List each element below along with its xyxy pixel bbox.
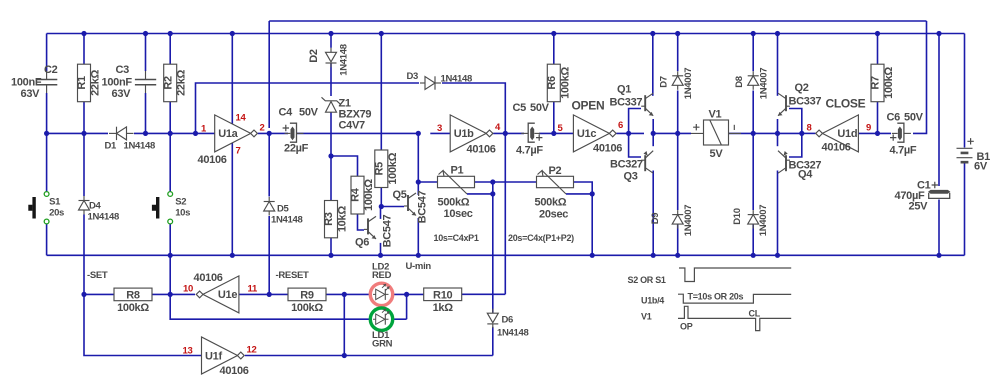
wire node to R4 top (331, 156, 358, 176)
wire to Q1 base (629, 109, 641, 134)
wire S1 top lead (46, 133, 48, 191)
svg-text:C5: C5 (513, 102, 527, 114)
wire U1a out down to D5 (268, 133, 270, 196)
svg-text:U-min: U-min (406, 261, 432, 272)
svg-text:U1c: U1c (577, 128, 596, 140)
svg-text:10s=C4xP1: 10s=C4xP1 (434, 233, 479, 243)
svg-text:R9: R9 (300, 290, 314, 302)
resistor R1 (78, 64, 91, 102)
wire to U1b input (430, 132, 450, 134)
svg-text:500kΩ: 500kΩ (535, 197, 567, 209)
wire D1 to U1a pin1 (134, 132, 215, 134)
wire +6V supply rail (47, 33, 965, 35)
svg-text:R8: R8 (126, 290, 140, 302)
wire R1 bottom lead (83, 102, 85, 133)
resistor R10 (424, 288, 462, 301)
svg-text:U1a: U1a (218, 128, 238, 140)
wire node to P1 left (418, 181, 437, 183)
svg-text:1N4148: 1N4148 (497, 328, 528, 339)
wire Q6 collector up (380, 207, 382, 219)
svg-text:R10: R10 (433, 290, 452, 302)
svg-text:U1b/4: U1b/4 (641, 296, 664, 306)
svg-text:OPEN: OPEN (572, 99, 605, 113)
wire Q3 emitter from V1 left node (652, 133, 654, 146)
svg-text:-SET: -SET (87, 270, 108, 281)
svg-text:P1: P1 (451, 165, 464, 177)
wire Q6 emitter to 0V (380, 243, 382, 255)
svg-text:22kΩ: 22kΩ (176, 69, 188, 95)
wire LED cathode link (406, 294, 408, 319)
svg-text:10sec: 10sec (444, 208, 473, 220)
op-amp U1c (40106 inverter) (573, 115, 609, 152)
wire C4 to U1b input (297, 132, 418, 134)
svg-text:V1: V1 (641, 312, 652, 322)
transistor Q1 BC337 (641, 105, 645, 107)
wire R2 top lead (169, 34, 171, 65)
wire Q3 collector to 0V rail (652, 171, 654, 256)
wire Q1 collector to +6V (652, 34, 654, 96)
svg-text:10s: 10s (175, 208, 190, 219)
wire -SET node down to U1f input (84, 294, 202, 355)
wire +6V to D8 (752, 34, 754, 72)
svg-text:12: 12 (247, 345, 257, 356)
svg-text:S1: S1 (49, 197, 61, 208)
diode D10 (748, 214, 759, 216)
svg-text:100kΩ: 100kΩ (117, 302, 149, 314)
svg-text:50V: 50V (904, 112, 924, 124)
LED LD1 green (370, 308, 392, 330)
wire U1a output to C4 (258, 132, 288, 134)
wire top feedback rail (U1a out to C6 right) (269, 20, 926, 22)
wire D4 to -SET node (83, 215, 85, 295)
capacitor C2 (36, 80, 57, 85)
svg-text:1N4148: 1N4148 (88, 212, 119, 223)
capacitor C5 (531, 127, 534, 139)
svg-text:R2: R2 (162, 76, 174, 90)
wire D8 to V1 right node (752, 91, 754, 134)
wire 0V / U-min bottom rail (47, 254, 965, 256)
wire D10 to 0V rail (752, 224, 754, 255)
wire Q2 collector to +6V (777, 34, 779, 96)
wire -SET node to R8 (84, 293, 114, 295)
wire Q4 emitter (777, 133, 779, 146)
diode D5 (264, 201, 275, 203)
capacitor C1 (470uF) (929, 190, 950, 193)
svg-text:R1: R1 (76, 76, 88, 90)
wire U1d output (802, 132, 816, 134)
svg-text:13: 13 (183, 346, 193, 357)
wire R6 bottom lead (553, 102, 555, 133)
wire Q4 collector to 0V rail (777, 171, 779, 256)
transistor Q4 BC327 (786, 159, 790, 161)
wire R9 node down to U1f output wire (343, 294, 345, 355)
svg-text:D10: D10 (732, 208, 743, 225)
svg-text:11: 11 (248, 284, 258, 295)
svg-text:D5: D5 (277, 204, 290, 215)
wire C2 top lead (46, 34, 48, 72)
op-amp U1b (40106 inverter) (450, 115, 486, 152)
wire R7 bottom lead (877, 102, 879, 133)
svg-text:10kΩ: 10kΩ (337, 206, 349, 232)
svg-text:22µF: 22µF (284, 143, 309, 155)
svg-text:Q6: Q6 (355, 237, 369, 249)
wire to Q2 base (789, 109, 802, 134)
svg-text:4.7µF: 4.7µF (890, 145, 917, 157)
svg-text:100kΩ: 100kΩ (559, 67, 571, 99)
svg-text:U1f: U1f (205, 350, 222, 362)
wire U1b output to C5 (493, 132, 524, 134)
svg-text:R5: R5 (374, 162, 386, 176)
svg-text:1N4007: 1N4007 (683, 68, 694, 99)
wire feedback left drop to U1a output node (268, 21, 270, 128)
wire U1e input from U1a output (239, 293, 269, 295)
switch S2 (168, 192, 173, 197)
wire U1d input from R7/C6 node (858, 132, 891, 134)
diode D6 (487, 313, 498, 323)
wire C2 bottom lead (46, 93, 48, 133)
wire S1 bottom lead (46, 224, 48, 255)
svg-text:40106: 40106 (467, 144, 496, 156)
wire R7 top lead (877, 34, 879, 65)
svg-text:D7: D7 (659, 76, 670, 88)
wire LD1 right (393, 318, 407, 320)
svg-text:U1b: U1b (454, 128, 474, 140)
resistor R7 (871, 64, 884, 102)
wire C3 bottom lead (145, 93, 147, 133)
svg-text:25V: 25V (909, 201, 929, 213)
wire R2 bottom lead (169, 102, 171, 133)
wire timing node down to D6 (492, 182, 494, 313)
wire to Q3 base (629, 133, 641, 157)
svg-text:Q4: Q4 (798, 169, 813, 181)
svg-text:40106: 40106 (593, 143, 622, 155)
svg-text:R7: R7 (870, 76, 882, 90)
wire +6V to R5 top (380, 34, 382, 151)
svg-text:P2: P2 (549, 165, 562, 177)
resistor R9 (288, 288, 326, 301)
switch S1 (44, 192, 49, 197)
svg-text:20s=C4x(P1+P2): 20s=C4x(P1+P2) (508, 233, 574, 243)
wire V1 left node (653, 132, 691, 134)
wire R4 bottom to Q6 base (358, 214, 365, 230)
diode D2 (326, 52, 337, 62)
wire D2 to Z1 (330, 64, 332, 97)
potentiometer P1 (438, 176, 475, 187)
svg-text:OP: OP (680, 322, 693, 332)
wire P2 wiper (566, 193, 592, 195)
timing waveform V1 (678, 306, 791, 330)
svg-text:U1d: U1d (837, 128, 857, 140)
svg-text:100kΩ: 100kΩ (387, 152, 399, 184)
wire D3 cathode to U1b output node (442, 83, 505, 133)
svg-text:9: 9 (866, 123, 871, 134)
junction dots (81, 31, 86, 36)
LED LD2 red (370, 283, 392, 305)
svg-text:R4: R4 (350, 187, 362, 202)
svg-text:20sec: 20sec (539, 209, 568, 221)
svg-text:1N4148: 1N4148 (124, 141, 155, 152)
svg-text:3: 3 (437, 123, 442, 134)
svg-text:1kΩ: 1kΩ (433, 302, 454, 314)
svg-text:Q1: Q1 (617, 84, 631, 96)
wire node to R3 top (330, 156, 332, 201)
svg-text:2: 2 (260, 123, 265, 134)
wire R6 top lead (553, 34, 555, 65)
svg-text:Q5: Q5 (393, 189, 407, 201)
svg-text:22kΩ: 22kΩ (90, 69, 102, 95)
svg-text:100kΩ: 100kΩ (291, 302, 323, 314)
wire left node rail to D1 (47, 132, 108, 134)
svg-text:R3: R3 (323, 212, 335, 226)
svg-text:40106: 40106 (220, 365, 249, 377)
wire R10 right up to U1b out (462, 293, 506, 295)
svg-text:D3: D3 (407, 71, 419, 82)
wire D6 to U1f output wire (492, 327, 494, 356)
diode D4 (79, 200, 90, 202)
svg-text:50V: 50V (530, 102, 550, 114)
svg-text:C3: C3 (116, 64, 130, 76)
wire D9 to 0V rail (677, 224, 679, 255)
capacitor C4 (291, 127, 294, 139)
wire Q2 emitter to V1 right node (777, 119, 779, 133)
op-amp U1d (40106 inverter) (822, 115, 858, 152)
transistor Q3 BC327 (641, 159, 645, 161)
wire LD2 to R10 (393, 293, 424, 295)
wire P1 right to P2 left (475, 181, 537, 183)
svg-text:S2 OR S1: S2 OR S1 (628, 275, 666, 285)
timing waveform S2 OR S1 (679, 268, 791, 282)
svg-text:D2: D2 (308, 49, 320, 63)
svg-text:Q3: Q3 (624, 171, 638, 183)
wire P2 right down to 0V rail (574, 182, 593, 255)
svg-text:40106: 40106 (822, 142, 851, 154)
svg-text:5V: 5V (710, 148, 724, 160)
wire 0V rail to R8 right node (169, 255, 171, 294)
timing waveform U1b/4 (678, 294, 791, 303)
svg-text:BC337: BC337 (610, 97, 643, 109)
svg-text:C6: C6 (887, 112, 901, 124)
wire node to R9 (269, 293, 288, 295)
svg-text:100nF: 100nF (102, 76, 133, 88)
svg-text:D8: D8 (734, 76, 745, 88)
wire Q5 collector to U1b input node (417, 133, 419, 195)
wire +6V down to C1 (938, 34, 940, 187)
wire P1 wiper (467, 193, 493, 195)
diode D8 (748, 75, 759, 77)
svg-text:C4V7: C4V7 (339, 120, 365, 132)
svg-text:D4: D4 (89, 201, 102, 212)
svg-text:100nF: 100nF (11, 76, 42, 88)
diode D7 (672, 75, 683, 77)
wire U1b output down to R10 (504, 133, 506, 294)
svg-text:U1e: U1e (218, 289, 237, 301)
op-amp U1e (40106 inverter) (203, 276, 239, 313)
battery B1 (957, 148, 973, 157)
svg-text:GRN: GRN (372, 338, 393, 349)
wire U1e output down to LD1 (170, 294, 370, 319)
svg-text:1N4007: 1N4007 (683, 205, 694, 236)
svg-text:BC547: BC547 (382, 214, 394, 247)
svg-text:D6: D6 (502, 315, 514, 326)
potentiometer P2 (537, 176, 574, 187)
svg-text:10: 10 (183, 284, 193, 295)
wire V1 right node to Q2/Q4 bases (729, 132, 802, 134)
wire to Q4 base (789, 133, 802, 157)
svg-text:50V: 50V (299, 107, 319, 119)
wire U1a pin 14 to +6V (231, 34, 233, 125)
svg-text:63V: 63V (21, 88, 41, 100)
svg-text:1N4007: 1N4007 (758, 205, 769, 236)
svg-text:20s: 20s (49, 208, 64, 219)
wire pin1 node up and right to D3 (196, 83, 420, 133)
svg-text:1N4148: 1N4148 (271, 215, 302, 226)
resistor R8 (114, 288, 152, 301)
wire D7 to V1 left node (677, 91, 679, 134)
wire C3 top lead (145, 34, 147, 72)
diode D9 (672, 214, 683, 216)
svg-text:CL: CL (749, 309, 761, 319)
wire S2 top lead (169, 133, 171, 191)
resistor R6 (547, 64, 560, 102)
svg-text:40106: 40106 (194, 272, 223, 284)
svg-text:40106: 40106 (198, 154, 227, 166)
wire to LD2 (344, 293, 370, 295)
wire S2 bottom lead (169, 224, 171, 255)
svg-text:C2: C2 (44, 64, 58, 76)
resistor R3 (325, 201, 338, 238)
wire D5 to U1e input node (268, 216, 270, 294)
wire R8 to U1e output node (152, 293, 170, 295)
wire V1 left node down to D9 (677, 133, 679, 210)
svg-text:500kΩ: 500kΩ (438, 197, 470, 209)
svg-text:-RESET: -RESET (276, 270, 310, 281)
wire V1 right node down to D10 (752, 133, 754, 210)
wire C5 to U1c input (539, 132, 573, 134)
wire Q1 emitter to V1 left node (652, 119, 654, 133)
wire U1c output to Q1/Q3 bases (616, 132, 644, 134)
wire +6V to D7 (677, 34, 679, 72)
wire R9 right (326, 293, 344, 295)
relay V1 (704, 120, 729, 145)
svg-text:BC327: BC327 (610, 159, 643, 171)
svg-text:6V: 6V (974, 161, 988, 173)
wire R5 bottom (380, 188, 382, 207)
wire U1e output (170, 293, 195, 295)
transistor Q5 (404, 205, 408, 207)
wire feedback right drop to C6 (913, 21, 927, 133)
svg-text:7: 7 (236, 146, 241, 157)
wire R5/Q6 node to Q5 base (381, 206, 404, 208)
svg-text:8: 8 (807, 123, 812, 134)
wire U1a pin 7 to 0V rail (231, 143, 233, 255)
op-amp U1f (40106 inverter) (202, 337, 238, 374)
wire U1f output to D6 (245, 355, 493, 357)
svg-text:CLOSE: CLOSE (826, 97, 866, 111)
diode D3 (434, 76, 436, 89)
svg-text:100kΩ: 100kΩ (363, 179, 375, 211)
capacitor C6 (898, 127, 901, 139)
svg-text:BC547: BC547 (417, 190, 429, 223)
svg-text:1N4148: 1N4148 (339, 44, 350, 75)
wire +6V to B1 plus (964, 34, 966, 148)
resistor R4 (351, 176, 364, 214)
svg-text:BC337: BC337 (789, 96, 822, 108)
svg-text:V1: V1 (709, 109, 722, 121)
svg-text:D1: D1 (105, 141, 118, 152)
capacitor C3 (135, 80, 156, 85)
svg-text:100kΩ: 100kΩ (883, 67, 895, 99)
op-amp U1a (40106 inverter) (215, 115, 251, 152)
svg-text:1N4007: 1N4007 (758, 68, 769, 99)
svg-text:6: 6 (618, 120, 623, 131)
diode D1 (116, 127, 118, 140)
wire Q5 emitter to 0V (417, 218, 419, 255)
svg-text:C4: C4 (279, 107, 294, 119)
svg-text:1N4148: 1N4148 (441, 74, 472, 85)
svg-text:S2: S2 (175, 197, 186, 208)
svg-text:Q2: Q2 (795, 82, 809, 94)
svg-text:D9: D9 (650, 213, 661, 225)
wire D4 top lead (83, 133, 85, 196)
resistor R2 (164, 64, 177, 102)
svg-text:T=10s OR 20s: T=10s OR 20s (688, 292, 744, 302)
wire R3 bottom to 0V rail (330, 238, 332, 256)
wire Z1 to R3/R4 node (330, 112, 332, 156)
svg-text:63V: 63V (112, 88, 132, 100)
wire C1 to 0V rail (938, 200, 940, 256)
wire B1 minus to 0V rail (964, 163, 966, 256)
svg-text:14: 14 (236, 113, 247, 124)
resistor R5 (375, 150, 388, 188)
svg-text:4.7µF: 4.7µF (516, 145, 543, 157)
wire D2 top lead (330, 34, 332, 48)
svg-text:R6: R6 (546, 76, 558, 90)
svg-text:RED: RED (372, 270, 392, 281)
wire R1 top lead (83, 34, 85, 65)
transistor Q6 (364, 228, 368, 230)
zener Z1 (322, 97, 341, 104)
transistor Q2 BC337 (786, 105, 790, 107)
